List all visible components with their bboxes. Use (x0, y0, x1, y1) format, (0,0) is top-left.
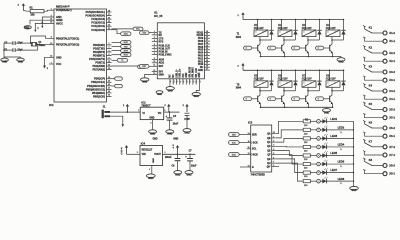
U1 pin 3 CTS (152, 38, 158, 40)
svg-text:SPI_MOSI: SPI_MOSI (189, 67, 191, 78)
LED LED1 (322, 119, 326, 123)
resistor R2H 220 (303, 180, 310, 183)
svg-text:GND: GND (338, 61, 344, 64)
terminal X2-1 (383, 59, 387, 63)
resistor R2C 220 (303, 137, 310, 140)
svg-text:REG1117: REG1117 (142, 148, 153, 151)
svg-text:5: 5 (154, 44, 155, 46)
ground symbol GND (C2) (1, 58, 9, 61)
IC3 pin 15 QA (272, 133, 276, 135)
net tag base drive RL2 (276, 47, 282, 49)
relay row 1 emitter rail (261, 56, 342, 58)
relay contact K5 (363, 103, 365, 105)
wire contact K6 to terminal X6-2 (372, 127, 383, 129)
svg-text:CQ1-12V: CQ1-12V (278, 28, 288, 30)
svg-text:15: 15 (173, 81, 175, 83)
IC1 pin 24 PC1(ADC1) (107, 25, 112, 27)
svg-text:11: 11 (108, 61, 110, 63)
terminal X8-2 (383, 164, 387, 168)
wire C4 to ground (169, 120, 171, 130)
svg-text:NC: NC (200, 67, 204, 69)
svg-text:PB4(MISO): PB4(MISO) (92, 91, 105, 95)
resistor R2F 220 (303, 162, 310, 165)
IC3 pin 10 SCL (247, 148, 251, 150)
IC1 pin 28 PC5(ADC5/SCL) (107, 11, 112, 13)
net tag (PC0) (112, 28, 134, 30)
svg-text:GND: GND (173, 138, 178, 140)
svg-text:LED8: LED8 (338, 177, 345, 181)
svg-text:28: 28 (206, 42, 208, 44)
relay contact K3 (363, 65, 365, 67)
wire QC to resistor row 3 (276, 138, 304, 142)
ground symbol GND (C6) (174, 171, 182, 175)
U1 pin 10 AIO1 (152, 62, 158, 64)
U1 bottom pin USB_D- (175, 79, 177, 85)
wire caps to ground (4, 42, 13, 44)
svg-text:PIO1: PIO1 (198, 61, 204, 63)
IC4 output wire (163, 153, 196, 155)
svg-text:1: 1 (328, 83, 329, 85)
svg-text:GND: GND (142, 82, 147, 84)
wire LED1 to gnd bus (326, 120, 353, 122)
svg-text:3: 3 (273, 145, 274, 147)
transistor Q3 3904 (305, 45, 307, 51)
net tag RXD (112, 41, 121, 43)
svg-text:30: 30 (206, 48, 208, 50)
terminal X5-1 (383, 116, 387, 120)
svg-text:4: 4 (154, 39, 155, 42)
wire to IC4 VIN (127, 153, 141, 155)
svg-text:VL: VL (340, 183, 342, 185)
ground symbol GND (C7) (185, 171, 193, 175)
terminal X6-1 (383, 134, 387, 138)
svg-text:PB6(XTAL1/TOSC1): PB6(XTAL1/TOSC1) (56, 37, 79, 40)
U1 pin 13 GND (152, 73, 158, 75)
svg-text:GND: GND (149, 118, 154, 120)
ground symbol GND (IC3P) (183, 129, 191, 133)
net tag to U1 RST (140, 64, 150, 68)
svg-text:10: 10 (50, 43, 52, 45)
svg-text:PD3(INT1): PD3(INT1) (93, 53, 105, 57)
ground symbol GND (C1) (17, 58, 25, 61)
svg-text:GND: GND (167, 133, 173, 136)
svg-text:PCM_SYNC: PCM_SYNC (159, 54, 172, 56)
svg-text:SER: SER (252, 134, 257, 136)
IC2 GND pin to ground (152, 120, 154, 130)
wire contact K1 to terminal X1-2 (372, 32, 383, 34)
svg-text:AIO0: AIO0 (159, 59, 165, 62)
ground symbol GND (row 1) (340, 57, 342, 58)
supply arrow at IC4 input (126, 147, 128, 154)
U1 pin 6 PCM_OUT (152, 48, 158, 50)
svg-text:10uF: 10uF (191, 166, 197, 168)
wire QF to resistor row 6 (276, 155, 304, 164)
svg-text:RTS: RTS (159, 41, 164, 43)
svg-text:8: 8 (154, 53, 155, 55)
IC1 pin 2 PD0(RXD) (107, 44, 112, 46)
svg-text:4: 4 (109, 49, 110, 52)
svg-text:GND: GND (175, 174, 181, 177)
LED LED5 (322, 153, 326, 157)
svg-text:VCC: VCC (56, 63, 61, 66)
svg-text:29: 29 (206, 45, 208, 47)
terminal X3-2 (383, 70, 387, 74)
svg-text:7: 7 (154, 50, 155, 52)
svg-text:QG: QG (267, 159, 271, 161)
svg-text:GND: GND (18, 61, 23, 63)
svg-text:QH': QH' (267, 166, 271, 168)
svg-text:18: 18 (108, 91, 110, 93)
LED LED3 (322, 136, 326, 140)
relay contact K6 (363, 121, 365, 123)
ground symbol GND (analog cluster) (24, 26, 31, 29)
net tag base drive RL5 (252, 98, 258, 100)
svg-text:VOUT: VOUT (154, 153, 161, 156)
svg-text:CQ1-12V: CQ1-12V (302, 79, 312, 81)
wire LED5 to gnd bus (326, 155, 353, 157)
svg-text:3904: 3904 (236, 87, 242, 90)
svg-text:3V3: 3V3 (159, 72, 164, 74)
IC1 pin 21 AREF (49, 19, 54, 21)
svg-text:GND: GND (159, 74, 164, 76)
svg-text:X3-2: X3-2 (389, 70, 395, 74)
svg-text:3: 3 (109, 47, 110, 49)
svg-text:16: 16 (177, 81, 179, 83)
svg-text:36: 36 (206, 66, 208, 68)
IC1 pin 6 PD4(XCK/T0) (107, 58, 112, 60)
U1 pin PIO3 (204, 55, 210, 57)
svg-text:IC1: IC1 (49, 103, 54, 107)
node crystal left / wire to PB6 (30, 42, 32, 44)
wire LED2 to gnd bus (326, 129, 353, 131)
U1 pin 1 TX (152, 31, 158, 33)
svg-text:PD4(XCK/T0): PD4(XCK/T0) (89, 57, 105, 61)
IC1 pin 10 PB7(XTAL2/TOSC2) (49, 44, 54, 46)
net tag OC1B (112, 85, 115, 87)
svg-text:IC3: IC3 (248, 120, 253, 124)
wire contact K1 lower to terminal X1-1 (363, 38, 365, 41)
svg-text:VO: VO (158, 112, 162, 115)
svg-text:9: 9 (154, 58, 155, 60)
wire contact K4 lower to terminal X4-1 (363, 96, 365, 99)
terminal X1-2 (383, 31, 387, 35)
svg-text:INT1: INT1 (124, 55, 128, 57)
svg-text:1: 1 (304, 83, 305, 85)
U1 bottom pin SPI_MOSI (189, 79, 191, 85)
supply arrow +12V at IC2 input (127, 111, 129, 113)
svg-text:GND: GND (168, 90, 173, 92)
ground symbol GND (IC2) (149, 130, 157, 134)
U1 pin 12 3V3 (152, 71, 158, 73)
wire J1 lower to ground (110, 116, 123, 124)
wire contact K2 lower to terminal X2-1 (363, 58, 365, 61)
U1 pin 4 RTS (152, 41, 158, 43)
svg-text:PIO0: PIO0 (198, 64, 204, 66)
svg-text:7: 7 (273, 162, 274, 164)
IC3 pin 11 SCK (247, 142, 251, 144)
svg-text:11: 11 (248, 141, 250, 143)
svg-text:CQ1-12V: CQ1-12V (302, 28, 312, 30)
U1 pin PIO1 (204, 60, 210, 62)
terminal X1-1 (383, 39, 387, 43)
node port LED3 (317, 137, 321, 141)
svg-text:AIO1: AIO1 (159, 62, 165, 65)
U1 pin PIO0 (204, 63, 210, 65)
svg-text:PB1(OC1A): PB1(OC1A) (91, 80, 105, 84)
svg-text:SCL: SCL (252, 149, 257, 151)
U1 bottom pin NC (172, 79, 174, 85)
svg-text:PB0(ICP): PB0(ICP) (94, 77, 105, 81)
wire LED3 to gnd bus (326, 137, 353, 139)
IC1 pin 4 PD2(INT0) (107, 51, 112, 53)
IC1 pin 16 PB2(SS/OC1B) (107, 85, 112, 87)
U1 pin PIO5 (204, 49, 210, 51)
svg-text:23: 23 (200, 81, 202, 83)
flyback diode D7 (319, 70, 321, 81)
net tag ADC (121, 32, 131, 36)
ground symbol GND (LED bus) (350, 186, 359, 190)
flyback diode D6 (295, 70, 297, 81)
svg-text:12: 12 (248, 153, 250, 155)
LED LED2 (322, 128, 326, 132)
svg-text:27: 27 (108, 14, 110, 16)
ground arrow symbol (43, 66, 46, 69)
svg-text:PD6(AIN0): PD6(AIN0) (93, 64, 106, 68)
svg-text:19: 19 (108, 95, 110, 97)
supply VCC arrow for reset pullup (22, 5, 24, 10)
IC3 pin 12 RCK (247, 154, 251, 156)
svg-text:NC: NC (170, 74, 172, 78)
ground symbol GND (U1 bottom B) (156, 91, 163, 94)
IC2 output wire (164, 111, 180, 113)
node port LED5 (317, 154, 321, 158)
svg-text:14: 14 (108, 76, 110, 79)
terminal X7-1 (383, 153, 387, 157)
U1 pin PIO4 (204, 52, 210, 54)
net tag base drive RL3 (300, 47, 306, 49)
wire QD to resistor row 4 (276, 145, 304, 148)
wire contact K7 lower to terminal X7-1 (363, 152, 365, 155)
svg-text:3: 3 (137, 152, 138, 154)
svg-text:2: 2 (273, 141, 274, 143)
svg-text:1: 1 (280, 32, 281, 34)
svg-text:X2-2: X2-2 (389, 51, 395, 55)
LED LED6 (322, 162, 326, 166)
svg-text:GND: GND (150, 133, 156, 136)
svg-text:4: 4 (273, 148, 274, 151)
svg-text:LED5: LED5 (330, 151, 337, 155)
IC1 pin 7 VCC (49, 63, 54, 65)
svg-text:2: 2 (109, 43, 110, 45)
wire J1 to IC2 VI (110, 111, 140, 113)
svg-text:U1: U1 (154, 10, 158, 14)
svg-text:PIO4: PIO4 (198, 52, 204, 55)
wire QG to resistor row 7 (276, 159, 304, 173)
svg-text:1: 1 (51, 9, 52, 11)
IC1 pin 9 PB6(XTAL1/TOSC1) (49, 37, 54, 39)
power symbol IC3P (186, 106, 188, 112)
U1 pin PIO8 (204, 40, 210, 42)
U1 bottom pin USB_D+ (179, 79, 181, 85)
relay row 1 supply rail (243, 19, 344, 21)
svg-text:CQ1-12V: CQ1-12V (254, 79, 264, 81)
ground symbol GND (IC4) (146, 174, 155, 178)
ground symbol GND (U1 bottom A) (169, 85, 171, 87)
wire LED8 to gnd bus (326, 180, 353, 182)
svg-text:11: 11 (153, 65, 155, 67)
svg-text:1: 1 (256, 83, 257, 85)
svg-text:26: 26 (206, 37, 208, 39)
resistor R2B 220 (303, 128, 310, 131)
svg-text:CQ1-12V: CQ1-12V (326, 28, 336, 30)
ground symbol GND (C4) (166, 130, 174, 134)
svg-text:33: 33 (206, 57, 208, 59)
flyback diode D2 (295, 20, 297, 31)
svg-text:GND: GND (194, 96, 199, 98)
svg-text:X8-1: X8-1 (389, 172, 395, 176)
svg-text:32: 32 (206, 54, 208, 56)
svg-text:TXD: TXD (142, 33, 146, 35)
svg-text:PB2(SS/OC1B): PB2(SS/OC1B) (87, 84, 105, 88)
svg-text:GND: GND (152, 138, 157, 140)
svg-text:PIO9: PIO9 (198, 38, 204, 40)
svg-text:SPI_CLK: SPI_CLK (196, 68, 198, 78)
IC1 pin 27 PC4(ADC4/SDA) (107, 15, 112, 17)
svg-text:22: 22 (196, 81, 198, 83)
svg-text:10: 10 (248, 147, 250, 149)
wire contact K8 to terminal X8-2 (372, 165, 383, 167)
terminal X8-1 (383, 172, 387, 176)
IC1 pin 13 PD7(AIN1) (107, 69, 112, 71)
IC3 pin 7 QH (272, 162, 276, 164)
wire contact K3 to terminal X3-2 (372, 71, 383, 73)
svg-text:20: 20 (50, 22, 52, 24)
U1 bottom pin SPI_CLK (195, 79, 197, 85)
svg-text:2: 2 (165, 152, 166, 154)
terminal X3-1 (383, 78, 387, 82)
svg-text:27: 27 (206, 40, 208, 42)
net tag base drive RL8 (324, 98, 330, 100)
svg-text:USB_D+: USB_D+ (180, 68, 182, 78)
svg-text:CQ1-12V: CQ1-12V (278, 79, 288, 81)
svg-text:PIO5: PIO5 (198, 50, 204, 52)
svg-text:PIO6: PIO6 (198, 47, 204, 49)
wire U1 GND pin to ground (145, 74, 152, 77)
transistor Q5 3904 (257, 96, 259, 102)
U1 pin 8 PCM_SYNC (152, 54, 158, 56)
svg-text:VI: VI (142, 112, 145, 115)
relay contact K7 (363, 140, 365, 142)
net tag TXD (112, 46, 121, 48)
svg-text:GND: GND (151, 158, 153, 163)
wire GND pin 22 down (45, 57, 50, 65)
svg-text:26: 26 (108, 17, 110, 19)
microcontroller IC1 MEGA8-P (54, 9, 107, 102)
svg-text:8: 8 (51, 15, 52, 17)
IC3 pin 13 G (247, 166, 251, 168)
svg-text:14: 14 (169, 81, 172, 83)
wire QH to resistor row 8 (276, 163, 304, 181)
supply arrow relay row 5 (242, 65, 244, 70)
IC3 pin 1 QB (272, 137, 276, 139)
svg-text:PC5(ADC5/SCL): PC5(ADC5/SCL) (86, 10, 106, 14)
svg-text:7: 7 (51, 62, 52, 64)
svg-text:1: 1 (280, 83, 281, 85)
svg-text:PIO11: PIO11 (197, 32, 204, 34)
svg-text:PB7(XTAL2/TOSC2): PB7(XTAL2/TOSC2) (56, 44, 79, 47)
svg-text:19: 19 (186, 81, 188, 83)
IC1 pin 8 GND (49, 16, 54, 18)
svg-text:QB: QB (267, 138, 271, 140)
relay row 5 supply rail (243, 69, 344, 71)
IC1 pin 5 PD3(INT1) (107, 54, 112, 56)
svg-text:X7-2: X7-2 (389, 145, 395, 149)
U1 pin GND (204, 69, 210, 71)
svg-text:1: 1 (256, 32, 257, 34)
svg-text:VL: VL (340, 166, 342, 168)
svg-text:CQ1-12V: CQ1-12V (326, 79, 336, 81)
terminal X6-2 (383, 126, 387, 130)
svg-text:X7-1: X7-1 (389, 153, 395, 157)
svg-text:2: 2 (154, 33, 155, 35)
svg-text:6: 6 (273, 157, 274, 159)
svg-text:3: 3 (154, 37, 155, 39)
wire LED6 to gnd bus (326, 163, 353, 165)
svg-text:GND: GND (148, 177, 154, 180)
svg-text:QF: QF (267, 155, 271, 157)
svg-text:PCM_CLK: PCM_CLK (159, 46, 171, 48)
supply arrow V down (34, 30, 36, 32)
svg-text:15: 15 (108, 81, 110, 83)
svg-text:13: 13 (108, 68, 110, 70)
LED LED4 (322, 145, 326, 149)
U1 pin 5 PCM_CLK (152, 45, 158, 47)
transistor Q1 3904 (257, 45, 259, 51)
IC3 pin 14 SER (247, 134, 251, 136)
svg-text:GND: GND (56, 56, 62, 59)
svg-text:QD: QD (267, 146, 271, 148)
IC1 pin 12 PD6(AIN0) (107, 65, 112, 67)
svg-text:34: 34 (206, 59, 208, 62)
svg-text:100nF: 100nF (165, 157, 172, 159)
svg-text:X6-1: X6-1 (389, 134, 395, 138)
svg-text:PD1(TXD): PD1(TXD) (93, 46, 105, 50)
svg-text:QH: QH (267, 163, 271, 165)
svg-text:TXD: TXD (124, 46, 128, 48)
IC3 pin 9 QH' (272, 166, 276, 168)
svg-text:1: 1 (138, 110, 139, 112)
svg-text:GND: GND (24, 27, 29, 29)
wire contact K2 to terminal X2-2 (372, 52, 383, 54)
svg-text:21: 21 (50, 19, 52, 21)
U1 pin 7 PCM_IN (152, 51, 158, 53)
net tag INT0 (112, 50, 121, 52)
svg-text:NC: NC (173, 74, 175, 78)
resistor R2G 220 (303, 171, 310, 174)
svg-text:X4-1: X4-1 (389, 97, 395, 101)
svg-text:1: 1 (149, 169, 150, 171)
svg-text:PD2(INT0): PD2(INT0) (93, 50, 105, 54)
svg-text:GND: GND (351, 189, 357, 192)
U1 bottom pin GND (185, 79, 187, 85)
svg-text:GND: GND (186, 174, 192, 177)
svg-text:5: 5 (109, 54, 110, 56)
svg-text:6: 6 (154, 47, 155, 49)
svg-text:10k: 10k (30, 14, 35, 17)
svg-text:25: 25 (206, 34, 208, 36)
wire contact K8 lower to terminal X8-1 (363, 170, 365, 173)
svg-text:LED1: LED1 (330, 117, 337, 121)
